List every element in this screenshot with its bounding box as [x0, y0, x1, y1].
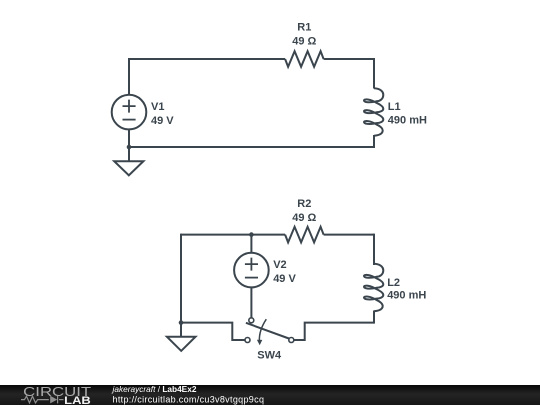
voltage source V1 — [112, 95, 147, 130]
svg-text:R1: R1 — [297, 22, 311, 34]
svg-text:http://circuitlab.com/cu3v8vtg: http://circuitlab.com/cu3v8vtgqp9cq — [113, 394, 265, 404]
svg-text:R2: R2 — [297, 198, 311, 210]
switch SW4 left throw terminal — [245, 338, 250, 343]
wire: L2 bottom lead — [373, 311, 375, 324]
svg-text:49 Ω: 49 Ω — [292, 36, 316, 48]
svg-text:jakeraycraft / Lab4Ex2: jakeraycraft / Lab4Ex2 — [112, 384, 197, 394]
node junction dot circuit2 ground node — [179, 320, 184, 325]
svg-text:490 mH: 490 mH — [387, 289, 426, 301]
wire: circuit2 top rail left of R2 — [181, 234, 285, 236]
svg-text:L2: L2 — [387, 277, 400, 289]
wire: circuit1 left vertical into V1 — [128, 58, 130, 95]
ground symbol circuit1 — [114, 147, 143, 175]
wire: circuit1 bottom rail — [129, 146, 374, 148]
svg-text:49 V: 49 V — [273, 273, 296, 285]
inductor L1 — [364, 88, 383, 135]
ground symbol circuit2 — [167, 323, 196, 351]
wire: L1 bottom lead — [373, 135, 375, 148]
switch SW4 actuation arrow — [259, 319, 266, 341]
voltage source V2 — [234, 253, 269, 288]
node junction dot at V1 minus / ground — [127, 145, 132, 150]
resistor R1 — [285, 51, 324, 67]
wire: ground node to switch left throw — [181, 323, 245, 340]
resistor R2 — [285, 227, 324, 243]
svg-text:SW4: SW4 — [257, 349, 282, 361]
footer black bar — [0, 385, 540, 405]
switch SW4 common terminal — [249, 318, 254, 323]
wire: circuit2 left vertical — [180, 234, 182, 323]
svg-text:490 mH: 490 mH — [388, 114, 427, 126]
wire: L2 top lead — [373, 234, 375, 265]
svg-text:49 V: 49 V — [151, 115, 174, 127]
svg-text:V1: V1 — [151, 101, 164, 113]
wire: circuit1 top rail left of R1 — [129, 58, 285, 60]
svg-text:LAB: LAB — [64, 395, 91, 405]
wire: circuit2 top rail right of R2 — [324, 234, 374, 236]
wire: V2 top lead — [250, 235, 252, 253]
wire: circuit1 top rail right of R1 — [324, 58, 374, 60]
svg-text:L1: L1 — [388, 101, 401, 113]
inductor L2 — [364, 264, 383, 311]
CircuitLab logo schematic doodle — [21, 396, 64, 404]
wire: V1 bottom lead — [128, 129, 130, 147]
wire: switch right throw to L2 bottom rail — [294, 323, 374, 340]
node junction dot at V2 top rail — [249, 232, 254, 237]
svg-text:V2: V2 — [273, 259, 286, 271]
switch SW4 arm — [246, 323, 289, 339]
wire: V2 bottom lead to switch common — [250, 287, 252, 318]
switch SW4 right throw terminal — [289, 338, 294, 343]
wire: L1 top lead — [373, 58, 375, 89]
svg-text:49 Ω: 49 Ω — [292, 212, 316, 224]
